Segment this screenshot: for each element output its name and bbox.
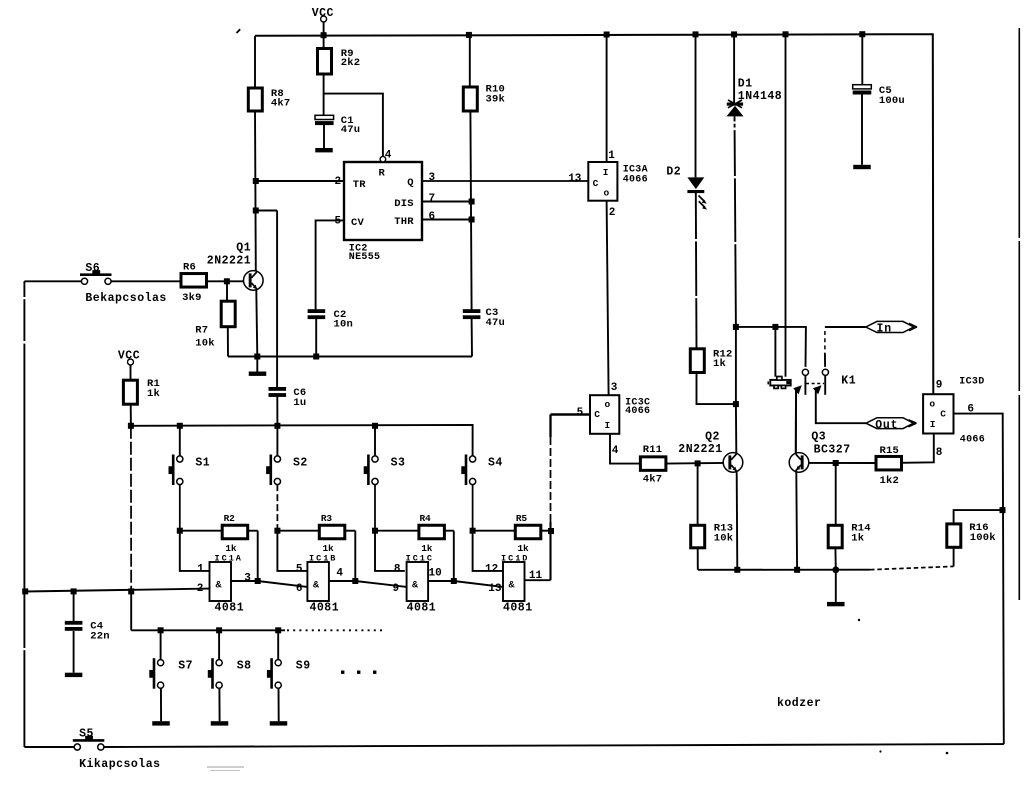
svg-text:4081: 4081 <box>503 602 533 615</box>
svg-text:4: 4 <box>336 568 343 580</box>
svg-text:THR: THR <box>394 216 414 228</box>
svg-text:2N2221: 2N2221 <box>678 443 722 456</box>
svg-text:11: 11 <box>529 570 543 582</box>
svg-text:47u: 47u <box>341 124 361 136</box>
svg-text:13: 13 <box>488 583 502 595</box>
svg-text:S4: S4 <box>488 456 503 469</box>
svg-text:IC1C: IC1C <box>406 553 434 563</box>
svg-text:C: C <box>593 178 599 189</box>
svg-text:1k: 1k <box>851 533 864 545</box>
svg-text:o: o <box>929 399 935 410</box>
svg-text:100u: 100u <box>879 95 905 107</box>
svg-text:D2: D2 <box>666 166 681 179</box>
svg-text:Kikapcsolas: Kikapcsolas <box>79 758 160 771</box>
svg-text:NE555: NE555 <box>349 252 381 263</box>
svg-text:Out: Out <box>875 419 898 432</box>
svg-text:22n: 22n <box>90 631 110 643</box>
svg-text:K1: K1 <box>841 374 856 387</box>
svg-text:8: 8 <box>394 564 401 576</box>
svg-text:2N2221: 2N2221 <box>207 255 251 268</box>
svg-text:BC327: BC327 <box>814 443 851 456</box>
svg-text:1k2: 1k2 <box>880 475 900 487</box>
svg-text:5: 5 <box>577 407 584 419</box>
svg-text:Q1: Q1 <box>236 241 251 254</box>
svg-text:S5: S5 <box>79 727 94 740</box>
svg-text:4: 4 <box>612 445 619 457</box>
svg-text:2: 2 <box>197 583 204 595</box>
svg-text:R3: R3 <box>321 513 333 524</box>
svg-text:7: 7 <box>429 193 436 205</box>
svg-text:1k: 1k <box>421 543 433 554</box>
svg-text:1N4148: 1N4148 <box>738 90 782 103</box>
svg-text:S1: S1 <box>195 456 210 469</box>
svg-text:8: 8 <box>936 447 943 459</box>
svg-text:1k: 1k <box>713 358 726 370</box>
svg-text:4081: 4081 <box>215 602 245 615</box>
svg-text:In: In <box>877 322 892 335</box>
svg-text:&: & <box>509 581 515 592</box>
svg-text:13: 13 <box>568 173 582 185</box>
svg-text:&: & <box>412 581 418 592</box>
svg-text:R2: R2 <box>224 513 236 524</box>
svg-text:kodzer: kodzer <box>777 697 821 710</box>
svg-text:IC3D: IC3D <box>959 376 984 387</box>
svg-text:Q: Q <box>407 177 414 189</box>
svg-text:5: 5 <box>335 216 342 228</box>
svg-text:I: I <box>603 167 609 178</box>
svg-text:3: 3 <box>429 172 436 184</box>
svg-text:R: R <box>379 168 386 180</box>
svg-text:1k: 1k <box>518 543 530 554</box>
svg-text:10k: 10k <box>195 338 215 350</box>
svg-text:TR: TR <box>353 179 367 191</box>
svg-text:2: 2 <box>335 176 342 188</box>
svg-text:R11: R11 <box>643 444 663 456</box>
svg-text:&: & <box>216 581 222 592</box>
svg-text:6: 6 <box>429 211 436 223</box>
svg-text:4066: 4066 <box>625 406 650 417</box>
svg-text:S9: S9 <box>296 659 311 672</box>
svg-text:R7: R7 <box>195 324 208 336</box>
svg-text:10n: 10n <box>334 318 354 330</box>
svg-text:S8: S8 <box>237 659 252 672</box>
svg-text:CV: CV <box>351 217 365 229</box>
svg-text:100k: 100k <box>970 532 996 544</box>
svg-text:&: & <box>313 581 319 592</box>
svg-text:Q3: Q3 <box>811 430 826 443</box>
svg-text:S7: S7 <box>178 659 193 672</box>
svg-text:3k9: 3k9 <box>182 292 202 304</box>
svg-text:IC1A: IC1A <box>215 553 243 563</box>
svg-text:4081: 4081 <box>407 602 437 615</box>
svg-text:9: 9 <box>936 380 943 392</box>
svg-text:2: 2 <box>609 207 616 219</box>
svg-text:I: I <box>605 420 611 431</box>
svg-text:6: 6 <box>967 404 974 416</box>
svg-text:IC1D: IC1D <box>501 553 529 563</box>
svg-text:I: I <box>930 419 936 430</box>
svg-text:R4: R4 <box>420 513 432 524</box>
svg-text:9: 9 <box>393 583 400 595</box>
svg-text:3: 3 <box>611 382 618 394</box>
svg-text:R15: R15 <box>880 445 900 457</box>
svg-text:1k: 1k <box>323 543 335 554</box>
svg-text:2k2: 2k2 <box>341 57 361 69</box>
svg-text:VCC: VCC <box>312 7 334 20</box>
svg-text:1: 1 <box>197 564 204 576</box>
svg-text:S2: S2 <box>293 456 308 469</box>
svg-text:47u: 47u <box>486 317 506 329</box>
svg-text:6: 6 <box>296 583 303 595</box>
svg-text:o: o <box>604 187 610 198</box>
svg-text:C: C <box>940 408 946 419</box>
svg-text:4k7: 4k7 <box>271 97 291 109</box>
svg-text:IC1B: IC1B <box>309 553 337 563</box>
svg-text:4066: 4066 <box>623 174 648 185</box>
svg-text:Q2: Q2 <box>705 430 720 443</box>
svg-text:4066: 4066 <box>960 435 985 446</box>
svg-text:39k: 39k <box>486 93 506 105</box>
svg-text:4081: 4081 <box>310 602 340 615</box>
svg-text:4: 4 <box>385 149 392 161</box>
svg-text:3: 3 <box>244 572 251 584</box>
svg-text:R5: R5 <box>516 513 528 524</box>
svg-text:D1: D1 <box>738 78 753 91</box>
svg-text:4k7: 4k7 <box>643 474 663 486</box>
svg-text:S3: S3 <box>391 456 406 469</box>
svg-text:1k: 1k <box>225 543 237 554</box>
svg-text:10k: 10k <box>714 533 734 545</box>
svg-text:1u: 1u <box>293 397 306 409</box>
svg-text:C: C <box>594 409 600 420</box>
svg-text:1: 1 <box>608 150 615 162</box>
svg-text:R6: R6 <box>183 262 196 274</box>
svg-text:1k: 1k <box>147 388 160 400</box>
svg-text:VCC: VCC <box>118 349 140 362</box>
svg-text:10: 10 <box>429 568 442 580</box>
svg-text:5: 5 <box>296 564 303 576</box>
svg-text:12: 12 <box>485 564 498 576</box>
svg-text:Bekapcsolas: Bekapcsolas <box>85 292 166 305</box>
svg-text:S6: S6 <box>85 262 100 275</box>
svg-text:DIS: DIS <box>394 198 414 210</box>
svg-text:o: o <box>605 399 611 410</box>
